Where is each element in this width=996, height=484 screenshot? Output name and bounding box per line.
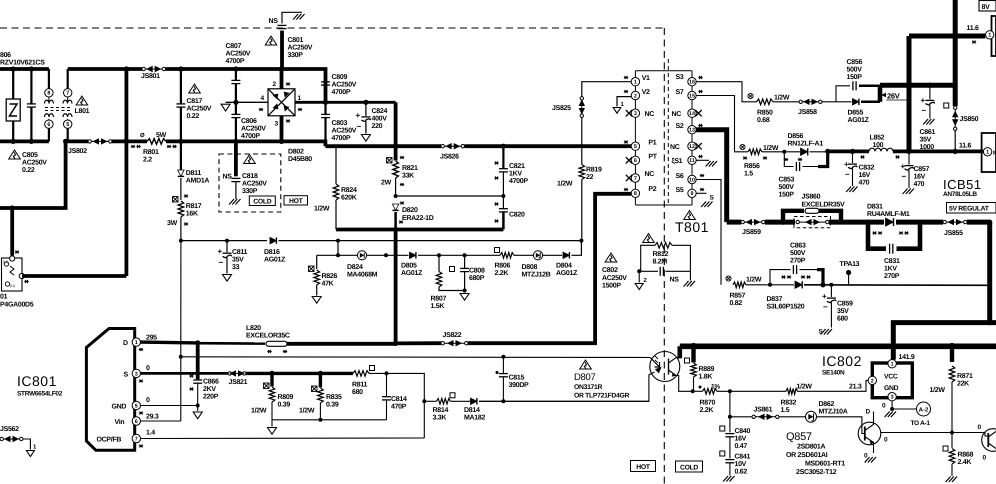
ground 2 R812 (635, 284, 643, 290)
svg-text:C832: C832 (859, 165, 875, 172)
wire D811-R817 (180, 178, 182, 200)
junction rail2/bridge (279, 139, 284, 144)
chassis ground Q857 (865, 457, 876, 463)
ground bridge left (221, 104, 230, 111)
polarity mark (494, 220, 498, 223)
svg-text:NC: NC (645, 111, 655, 118)
svg-text:150P: 150P (779, 192, 795, 199)
wire D807 collector (676, 357, 680, 359)
svg-text:P4GA00D5: P4GA00D5 (0, 302, 34, 309)
svg-text:P1: P1 (648, 140, 656, 147)
wire C808 bottom (464, 272, 466, 293)
square mark C840 (720, 426, 725, 431)
wire D856 out (810, 151, 828, 153)
junction rail1/C801-bridge (279, 66, 284, 71)
wire C801 riser (280, 31, 284, 69)
junction riser/L820 line (393, 341, 398, 346)
svg-text:0.47: 0.47 (735, 443, 748, 450)
T801 pin 11 S1 (688, 156, 696, 164)
polarity mark (784, 158, 788, 161)
test point TPA13 (846, 270, 851, 275)
wire L801 pin8 coil link (48, 97, 50, 101)
svg-text:3W: 3W (167, 220, 178, 227)
wire lineA seg2 (279, 240, 582, 242)
svg-text:(U): (U) (3, 260, 8, 264)
wire R889 bottom (693, 377, 695, 391)
svg-text:C802: C802 (602, 267, 618, 274)
svg-text:JS859: JS859 (742, 229, 761, 236)
wire R812 box left (641, 245, 655, 271)
svg-text:−: − (219, 258, 224, 267)
svg-text:D820: D820 (402, 207, 418, 214)
junction R821/C821 line (394, 194, 398, 198)
svg-text:4700P: 4700P (226, 58, 245, 65)
wire C815 top (502, 357, 504, 373)
wire 26V rail (880, 83, 955, 88)
wire D807 cathode (479, 372, 655, 401)
svg-text:5: 5 (634, 144, 637, 150)
svg-text:1/2W: 1/2W (251, 407, 267, 415)
diode D820 ERA22 (392, 204, 398, 210)
polarity mark (494, 203, 498, 206)
wire D837 out (804, 284, 990, 287)
svg-text:AG01Z: AG01Z (401, 270, 423, 277)
svg-text:01: 01 (0, 294, 8, 301)
ICB51 pin 1 IN (983, 148, 991, 156)
wire R889 top (691, 346, 695, 362)
wire TPA13 stub (848, 273, 850, 285)
junction rail2/varistor (11, 139, 16, 144)
resistor R850 (757, 99, 774, 105)
resistor R832 (786, 389, 798, 395)
svg-text:C814: C814 (391, 396, 407, 403)
svg-text:2.2K: 2.2K (700, 407, 714, 414)
svg-text:1/2W: 1/2W (314, 205, 330, 213)
wire R807 bottom (439, 287, 465, 291)
svg-text:ON3171R: ON3171R (574, 384, 603, 391)
svg-text:22: 22 (586, 174, 594, 181)
svg-text:3: 3 (891, 395, 894, 401)
wire R832 to IC802 pin2 (798, 380, 869, 391)
wire rail2 R801 to jog (166, 141, 325, 146)
wire 26V node vertical (878, 85, 883, 102)
svg-text:270P: 270P (884, 273, 900, 280)
wire Vin riser (180, 357, 182, 421)
svg-text:1KV: 1KV (509, 171, 522, 178)
junction rail1/varistor (11, 66, 16, 71)
junction D820/thick line (393, 227, 398, 232)
wire C866 top (196, 343, 200, 379)
bridge rectifier D802 (268, 89, 295, 116)
svg-text:V2: V2 (642, 89, 650, 96)
wire 11.6 rail to L852 (828, 149, 869, 153)
wire D862 to Q857 base (817, 417, 865, 434)
wire varistor top (12, 69, 14, 99)
junction Vin/feedback line (179, 355, 183, 359)
svg-text:RZV10V621CS: RZV10V621CS (0, 60, 45, 67)
svg-text:ξS1: ξS1 (672, 157, 683, 165)
wire R835 bottom (319, 403, 321, 420)
wire OCP line (141, 437, 425, 440)
svg-text:MA4068M: MA4068M (347, 272, 378, 279)
svg-text:+: + (218, 247, 223, 256)
diode D805 (410, 252, 416, 258)
ground R826 (312, 297, 321, 304)
junction bridge-left line (233, 100, 238, 105)
wire R807 top (438, 255, 440, 271)
svg-text:0.68: 0.68 (757, 117, 770, 124)
wire L801 pin6 coil link (48, 119, 50, 120)
wire S1 ground (696, 159, 709, 161)
svg-text:JS825: JS825 (552, 105, 571, 112)
symbol sq R809 (264, 383, 270, 389)
wire 955 riser top (953, 0, 958, 106)
chassis ground R812 (684, 281, 695, 287)
svg-text:400V: 400V (372, 116, 388, 123)
polarity mark (131, 145, 135, 148)
wire rowB seg5 (543, 254, 562, 256)
wire R812 right gnd stub (689, 271, 691, 280)
junction rail2b/R821 (393, 144, 398, 149)
svg-text:0.39: 0.39 (326, 402, 339, 409)
svg-text:35V: 35V (232, 257, 244, 264)
wire C857 bottom (908, 170, 910, 188)
wire R821-D820 (395, 178, 397, 196)
IC802 pin 1 VCC (888, 360, 896, 368)
svg-text:JS850: JS850 (960, 116, 979, 123)
junction emitter/R889/R870 (691, 389, 695, 393)
symbol sq R835 (312, 386, 318, 392)
wire C806 bottom (235, 118, 237, 142)
svg-text:330P: 330P (288, 52, 304, 59)
capacitor C866 (193, 380, 202, 383)
svg-text:11.6: 11.6 (967, 25, 979, 32)
svg-text:5V REGULAT: 5V REGULAT (949, 206, 990, 213)
IC801 pin S (132, 369, 140, 377)
wire JS861 in (730, 416, 752, 418)
polarity mark (798, 158, 802, 161)
junction R835 bottom (318, 418, 322, 422)
wire D831 out (896, 220, 920, 225)
svg-text:GND: GND (112, 404, 127, 411)
svg-text:0.22: 0.22 (22, 167, 35, 174)
T801 pin 3 NC (631, 109, 639, 117)
diode D808 circled zener (533, 251, 542, 260)
wire C863 branch (770, 270, 791, 285)
square mark R814 (450, 393, 455, 398)
svg-text:AC250V: AC250V (332, 128, 357, 135)
junction C859 tap (829, 283, 833, 287)
resistor R807 (436, 272, 442, 288)
capacitor C820 (499, 209, 508, 212)
jumper JS562 (0, 437, 23, 442)
junction rail1/C817 (178, 66, 183, 71)
svg-text:−: − (845, 170, 850, 179)
svg-text:+: + (844, 160, 849, 169)
wire D855 in (836, 101, 852, 103)
wire loop down from rail2 (12, 141, 65, 208)
svg-text:C840: C840 (735, 428, 751, 435)
polarity mark (139, 412, 143, 415)
svg-text:1500P: 1500P (602, 283, 621, 290)
svg-text:7: 7 (634, 176, 637, 182)
wire D807 emitter (676, 376, 693, 392)
square mark R806 (495, 248, 500, 253)
jumper JS855 (943, 220, 967, 225)
svg-text:RU4AMLF-M1: RU4AMLF-M1 (867, 211, 910, 218)
svg-text:16V: 16V (859, 172, 871, 179)
wire 11.6 rail top (909, 34, 985, 39)
wire rowB seg2 (367, 254, 409, 256)
polarity mark (899, 232, 903, 235)
capacitor C817 (176, 104, 185, 107)
wire bridge right pin 1 (295, 101, 396, 104)
svg-text:R801: R801 (143, 149, 159, 156)
polarity mark (972, 41, 976, 44)
wire gnd stub R809 (271, 420, 273, 427)
junction rail2/C817-D811 (178, 139, 183, 144)
svg-text:1.4: 1.4 (146, 430, 155, 437)
svg-text:0.22: 0.22 (187, 113, 200, 120)
svg-text:R868: R868 (958, 452, 974, 459)
wire C857 top (908, 151, 910, 164)
inductor L820 (266, 341, 287, 346)
star mark V1 (624, 76, 628, 79)
polarity mark (139, 380, 143, 383)
junction 26V drop (987, 220, 992, 225)
svg-text:680P: 680P (469, 275, 485, 282)
svg-text:TO A-1: TO A-1 (911, 420, 931, 427)
capacitor C815 (499, 374, 508, 377)
svg-text:NC: NC (672, 111, 682, 118)
inductor L801 winding c (45, 114, 54, 117)
svg-text:S3: S3 (676, 74, 684, 81)
svg-text:0: 0 (146, 365, 150, 372)
wire L820 line to JS822 (396, 341, 441, 345)
circle A-2 (917, 402, 931, 416)
warning triangle C801 (265, 36, 277, 45)
wire C831 branch (868, 222, 886, 249)
wire varistor bottom (12, 121, 14, 141)
polarity mark (184, 223, 188, 226)
svg-text:0.39: 0.39 (278, 402, 291, 409)
wire C814 top (386, 373, 388, 396)
svg-text:C815: C815 (509, 375, 525, 382)
svg-text:21.3: 21.3 (849, 384, 862, 391)
jumper JS861 (752, 414, 779, 419)
svg-text:1.8K: 1.8K (699, 374, 713, 381)
svg-text:AMD1A: AMD1A (186, 178, 210, 185)
wire C818 top (234, 141, 238, 176)
svg-text:1: 1 (135, 340, 138, 346)
junction rail2/loop-up (124, 139, 129, 144)
wire D855 out (861, 101, 880, 104)
wire C805 top (30, 69, 32, 104)
jumper JS859 (741, 220, 765, 225)
junction rowB/R807 (437, 253, 441, 257)
svg-text:NS: NS (670, 277, 680, 284)
svg-text:C857: C857 (914, 166, 930, 173)
chassis ground S5 (701, 202, 712, 208)
T801 pin 5 P1 (631, 142, 639, 150)
IC801 pin D (132, 338, 140, 346)
warning triangle C805 (9, 150, 21, 159)
svg-text:1: 1 (891, 362, 894, 368)
junction IC802 gnd/A-2 (890, 407, 894, 411)
chassis ground C859 (821, 329, 832, 335)
svg-text:R821: R821 (402, 165, 418, 172)
svg-text:C866: C866 (203, 379, 219, 386)
wire JS855 out (967, 220, 990, 225)
junction S/R835 (318, 371, 323, 376)
svg-text:1: 1 (986, 150, 989, 156)
wire D811 top (180, 141, 182, 170)
svg-text:JS860: JS860 (802, 194, 821, 201)
IC801 pin GND (132, 401, 140, 409)
symbol sq R817 (173, 197, 179, 203)
polarity mark (139, 348, 143, 351)
warning triangle L801 (76, 96, 88, 105)
symbol sq R826 (309, 266, 315, 272)
ground C808 R807 (460, 294, 469, 301)
wire R826 bottom (316, 285, 318, 296)
capacitor C805 (27, 104, 36, 107)
capacitor C808 (460, 268, 469, 271)
wire L801 pin8 stub (48, 69, 50, 89)
IC801 pin Vin (132, 417, 140, 425)
resistor R835 (318, 388, 324, 403)
wire rowB seg6 (572, 241, 582, 256)
wire C861 bottom (929, 105, 931, 119)
L801 pin 5 (63, 120, 71, 128)
svg-text:R889: R889 (699, 366, 715, 373)
polarity mark (189, 388, 193, 391)
IC IC801 body (86, 329, 134, 451)
resistor R821 (393, 161, 399, 178)
square mark C841 (720, 451, 725, 456)
svg-text:D837: D837 (767, 296, 783, 303)
svg-text:Q857: Q857 (786, 431, 812, 443)
junction rail2b/C821 (501, 144, 506, 149)
wire L801 pin5 coil link (67, 119, 69, 120)
svg-text:+: + (901, 162, 906, 171)
svg-text:JS855: JS855 (944, 230, 963, 237)
junction rail1/C807 (233, 66, 238, 71)
wire C817 top (180, 69, 182, 104)
ground R809 R835 (268, 428, 277, 435)
mark node (699, 386, 702, 389)
svg-text:S2: S2 (676, 123, 684, 130)
svg-text:C863: C863 (790, 243, 806, 250)
svg-text:2SC3052-T12: 2SC3052-T12 (796, 469, 837, 476)
wire D814 out (479, 400, 649, 402)
svg-text:11: 11 (689, 158, 695, 164)
junction lineA/jog (336, 239, 340, 243)
svg-text:L820: L820 (246, 325, 261, 332)
junction rowB/thick riser (384, 253, 388, 257)
svg-text:500V: 500V (847, 67, 863, 74)
svg-text:R812: R812 (653, 251, 669, 258)
svg-text:C808: C808 (469, 268, 485, 275)
svg-text:1: 1 (634, 80, 637, 86)
wire L801 pin5 stub (67, 129, 69, 142)
wire V1 to JS825 (582, 82, 631, 97)
star mark P1 (624, 141, 628, 144)
jumper JS850 (953, 106, 958, 131)
L801 core dash2 (45, 110, 72, 112)
svg-text:5: 5 (66, 122, 69, 128)
svg-text:1/2W: 1/2W (557, 180, 573, 188)
junction rail/R871 (949, 343, 956, 350)
diode D856 (801, 148, 808, 155)
svg-text:D: D (866, 409, 871, 416)
square mark R868 (943, 446, 948, 451)
svg-text:AC250V: AC250V (242, 181, 267, 188)
wire loop to box (10, 208, 14, 256)
wire JS859 line in (727, 220, 741, 225)
svg-text:C801: C801 (288, 37, 304, 44)
wire C824 top (365, 102, 367, 116)
polarity mark (878, 232, 882, 235)
wire rowB seg3 (418, 254, 500, 256)
svg-text:+: + (356, 111, 361, 120)
svg-text:JS861: JS861 (754, 407, 773, 414)
svg-text:S5: S5 (676, 187, 684, 194)
resistor R856 (748, 149, 762, 155)
mark C815 (496, 371, 499, 374)
junction pin1/C809-C803 (323, 100, 328, 105)
wire bottom main rail (680, 343, 996, 349)
svg-text:26V: 26V (887, 92, 900, 101)
polarity mark (286, 120, 290, 123)
wire thick snubber bottom (336, 228, 503, 232)
wire D pin line (141, 340, 198, 344)
wire R824 bottom (335, 200, 337, 230)
svg-text:C805: C805 (22, 152, 38, 159)
wire snubber top link (396, 195, 504, 197)
wire R809 top (270, 373, 273, 386)
svg-text:−: − (357, 122, 362, 131)
svg-text:13: 13 (689, 128, 695, 134)
wire R850-JS858 (773, 101, 799, 103)
junction 26V drop/R857 row (988, 283, 992, 287)
svg-text:220P: 220P (203, 394, 219, 401)
svg-text:295: 295 (146, 335, 157, 342)
svg-text:6: 6 (634, 158, 637, 164)
junction rail1/C805 (29, 66, 34, 71)
svg-text:1/2W: 1/2W (797, 383, 813, 391)
svg-text:4700P: 4700P (241, 133, 260, 140)
diode D824 circled (357, 251, 366, 260)
T801 pin 1 V1 (631, 78, 639, 86)
wire C863 thick corner (817, 270, 823, 285)
capacitor C801 (278, 25, 287, 28)
resistor R809 (269, 387, 275, 402)
star mark right pins (698, 76, 702, 79)
wire rail2 segment to JS802 (68, 139, 88, 143)
svg-text:D811: D811 (186, 170, 202, 177)
wire Q857 collector out (881, 432, 982, 434)
svg-text:D45B80: D45B80 (288, 156, 312, 163)
svg-text:2.2: 2.2 (143, 157, 152, 164)
pin 1 top-right IC (986, 31, 994, 39)
wire R821 top (394, 146, 398, 160)
svg-text:C820: C820 (509, 212, 525, 219)
svg-text:D804: D804 (556, 263, 572, 270)
chassis ground C818 (229, 199, 240, 205)
wire bridge left pin 4 (226, 101, 268, 103)
svg-text:D: D (123, 340, 128, 347)
